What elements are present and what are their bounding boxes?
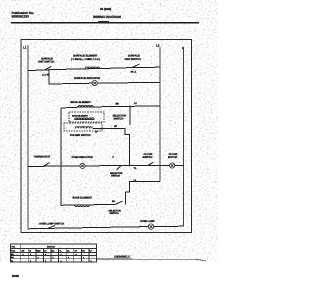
timed bake element (coil inside box) <box>75 118 95 120</box>
clock switch <box>147 162 154 166</box>
svg-text:L1: L1 <box>23 45 27 49</box>
svg-text:OVEN LAMP: OVEN LAMP <box>140 220 155 223</box>
table header text <box>11 246 93 253</box>
table data rows <box>11 253 93 262</box>
svg-text:SWITCH: SWITCH <box>47 246 55 249</box>
surface element (coil) <box>85 67 100 69</box>
wire: N bus <box>183 49 185 227</box>
surface unit switch SW2 (right) <box>131 64 139 68</box>
svg-text:( 1 SMALL, 1 MED, 1 LG ): ( 1 SMALL, 1 MED, 1 LG ) <box>71 58 100 61</box>
header text: model number <box>100 7 111 11</box>
diagram border frame <box>21 40 192 233</box>
header text: WIRING DIAGRAM <box>93 15 121 19</box>
svg-text:SURFACE INDICATOR: SURFACE INDICATOR <box>74 77 100 80</box>
svg-text:UNIT SWITCH: UNIT SWITCH <box>38 61 54 64</box>
wire: L1 bus <box>27 45 29 229</box>
junction on broil rung <box>129 106 131 108</box>
wire: pulser output to selector <box>93 129 130 167</box>
svg-text:SWITCH: SWITCH <box>111 175 120 178</box>
bake selector contact <box>114 201 122 205</box>
selector switch contact below rung <box>117 166 122 170</box>
svg-text:SWITCH: SWITCH <box>114 118 124 121</box>
scan speckle overlay <box>12 6 200 238</box>
wire: broil rung <box>61 106 160 108</box>
svg-text:OVEN INDICATOR: OVEN INDICATOR <box>72 156 93 159</box>
wire: bake rung <box>61 204 115 207</box>
svg-text:BAKE ELEMENT: BAKE ELEMENT <box>73 197 93 200</box>
wire: riser from bake rung to L2 bus <box>126 182 161 205</box>
label: SELECTOR SWITCH (middle) <box>113 115 127 121</box>
svg-text:5995381233: 5995381233 <box>12 15 30 19</box>
thermostat switch <box>43 163 50 167</box>
wire: thermostat rung <box>28 166 160 167</box>
svg-text:BAKE ELEMENT: BAKE ELEMENT <box>72 114 89 117</box>
svg-text:POS.: POS. <box>11 250 16 253</box>
svg-text:MED: MED <box>37 250 42 253</box>
wire: surface indicator rung <box>49 82 160 84</box>
oven box (dashed, bake/timed element enclosure) <box>69 112 104 122</box>
junction at L1 / surface rung <box>27 70 29 72</box>
svg-text:SWITCH: SWITCH <box>143 156 153 159</box>
wire: drop from switch to surface indicator rung <box>48 70 50 84</box>
label: CLOCK MOTOR <box>168 153 178 159</box>
svg-text:SELECTOR: SELECTOR <box>109 209 122 212</box>
svg-text:L1 2 N: L1 2 N <box>42 74 49 77</box>
rule under part number <box>97 259 207 261</box>
dashed box 2 (lower element enclosure) <box>64 123 102 131</box>
label: SURFACE UNIT SWITCH (right) <box>125 55 141 61</box>
svg-text:42 L1: 42 L1 <box>131 71 137 74</box>
svg-text:59/95: 59/95 <box>12 274 19 278</box>
header rule <box>11 22 199 24</box>
svg-text:BROIL ELEMENT: BROIL ELEMENT <box>71 101 92 104</box>
wire: clock motor rung (L2 to N) <box>160 164 184 166</box>
svg-text:OVEN LAMP SWITCH: OVEN LAMP SWITCH <box>39 223 64 226</box>
svg-text:MOTOR: MOTOR <box>168 156 177 159</box>
clock motor <box>170 163 175 168</box>
junction dots on thermostat rung <box>60 165 62 167</box>
label: SURFACE ELEMENT <box>71 55 100 61</box>
oven lamp <box>148 224 153 229</box>
surface unit switch SW1 (left) <box>44 66 52 70</box>
wire: left riser from broil rung down to bake rung <box>60 108 62 205</box>
wire: selector vertical from broil junction <box>129 106 131 125</box>
element coil inside dashed box 2 <box>76 127 93 129</box>
switch chart table <box>11 244 97 262</box>
svg-text:8A: 8A <box>112 200 115 203</box>
svg-text:318243901 C: 318243901 C <box>114 255 130 259</box>
wire: oven lamp rung <box>28 226 184 229</box>
label: SURFACE UNIT SWITCH (left) <box>38 58 54 64</box>
svg-text:BB: BB <box>116 103 120 106</box>
wire: surface element rung <box>28 67 160 70</box>
header text: Publication No. <box>12 11 35 19</box>
label: CLOCK SWITCH <box>143 153 153 159</box>
oven indicator lamp <box>80 163 85 168</box>
svg-text:SWITCH: SWITCH <box>110 212 119 215</box>
bake element (coil hanging below line) <box>75 205 90 207</box>
svg-text:WIRING DIAGRAM: WIRING DIAGRAM <box>93 15 121 19</box>
svg-text:UNIT SWITCH: UNIT SWITCH <box>125 58 141 61</box>
broil element (coil) <box>78 105 93 107</box>
wire: L2 bus <box>159 47 161 182</box>
svg-text:THERMOSTAT: THERMOSTAT <box>34 156 51 159</box>
svg-text:L2: L2 <box>156 43 160 47</box>
label: SELECTOR SWITCH (bottom) <box>109 209 122 215</box>
svg-text:SELECTOR: SELECTOR <box>110 172 123 175</box>
label: SELECTOR SWITCH (lower-left) <box>110 172 123 178</box>
svg-text:PULSER SWITCH: PULSER SWITCH <box>70 134 91 137</box>
oven lamp switch <box>47 226 55 229</box>
surface indicator lamp <box>92 81 97 86</box>
svg-text:34 (6M2): 34 (6M2) <box>100 7 111 11</box>
svg-text:P.N.: P.N. <box>12 246 16 249</box>
